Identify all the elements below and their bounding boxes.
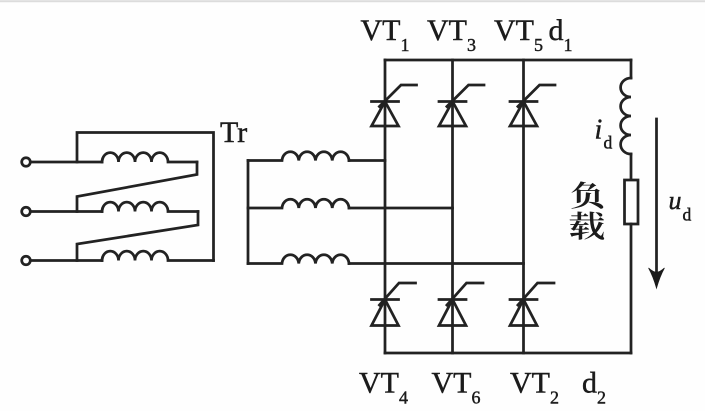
input terminal phase B — [22, 207, 31, 216]
label d2 — [582, 367, 606, 408]
wire inductor to load — [630, 154, 633, 180]
svg-text:VT4: VT4 — [359, 367, 408, 408]
transformer primary winding 3 — [102, 251, 214, 260]
input terminal phase A — [22, 158, 31, 167]
svg-text:d1: d1 — [549, 14, 573, 55]
label id — [595, 115, 613, 153]
thyristor VT6 — [439, 283, 483, 326]
label VT6 — [432, 367, 481, 408]
transformer primary winding 1 — [102, 153, 197, 162]
resistor load (rect) — [625, 180, 639, 224]
inductor Ld — [621, 78, 631, 154]
wire delta top link — [77, 133, 214, 261]
wire phase a to bridge — [349, 159, 385, 162]
label VT1 — [361, 14, 410, 55]
wire bridge leg 2 — [451, 60, 454, 353]
wire delta link 1-2 — [77, 162, 197, 212]
wire bottom rail d2 bus — [385, 352, 631, 355]
label fuzai (load) — [570, 181, 605, 239]
svg-text:d2: d2 — [582, 367, 606, 408]
wire load to bottom rail — [630, 224, 633, 353]
input terminal phase C — [22, 256, 31, 265]
svg-text:u: u — [669, 186, 682, 215]
thyristor VT2 — [510, 283, 554, 326]
thyristor VT1 — [372, 85, 417, 126]
thyristor VT4 — [372, 283, 416, 326]
wire load branch top — [630, 60, 633, 78]
svg-text:i: i — [595, 115, 603, 146]
label VT2 — [510, 367, 559, 408]
wire top rail d1 bus — [385, 59, 631, 62]
transformer secondary winding c — [248, 255, 349, 264]
svg-text:d: d — [683, 205, 692, 225]
svg-text:VT2: VT2 — [510, 367, 559, 408]
wire secondary star bar — [247, 161, 250, 264]
thyristor VT5 — [510, 85, 555, 126]
arrow ud direction — [649, 119, 665, 288]
wire phase C input — [31, 259, 103, 262]
label VT4 — [359, 367, 408, 408]
svg-text:VT3: VT3 — [427, 14, 476, 55]
label d1 — [549, 14, 573, 55]
wire phase B input — [31, 210, 103, 213]
wire bridge leg 3 — [522, 60, 525, 353]
label Tr — [220, 116, 247, 149]
label VT3 — [427, 14, 476, 55]
svg-text:d: d — [604, 133, 613, 153]
svg-text:VT6: VT6 — [432, 367, 481, 408]
wire delta link 2-3 — [77, 212, 198, 261]
label VT5 — [494, 14, 543, 55]
svg-text:VT5: VT5 — [494, 14, 543, 55]
wire bridge leg 1 — [384, 60, 387, 353]
wire phase b to bridge — [349, 207, 453, 210]
label ud — [669, 186, 692, 225]
transformer secondary winding a — [248, 152, 349, 161]
transformer primary winding 2 — [102, 202, 198, 211]
wire phase A input — [31, 161, 103, 164]
thyristor VT3 — [439, 85, 484, 126]
svg-text:VT1: VT1 — [361, 14, 410, 55]
svg-text:Tr: Tr — [220, 116, 247, 149]
transformer secondary winding b — [248, 199, 349, 208]
wire phase c to bridge — [349, 262, 524, 265]
